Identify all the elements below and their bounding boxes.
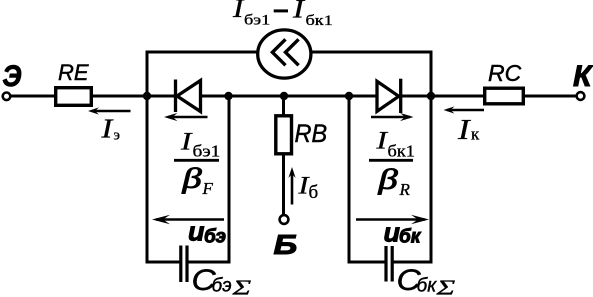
svg-text:бэ1: бэ1: [193, 142, 221, 161]
svg-text:u: u: [384, 218, 401, 248]
svg-text:бэ: бэ: [204, 227, 226, 248]
svg-text:б: б: [309, 182, 319, 203]
svg-text:β: β: [181, 163, 201, 194]
svg-text:Э: Э: [3, 58, 22, 92]
svg-text:F: F: [202, 179, 214, 198]
svg-text:бэ1: бэ1: [244, 11, 270, 28]
svg-text:бк: бк: [417, 276, 438, 297]
svg-text:бк1: бк1: [388, 141, 415, 160]
svg-text:RE: RE: [58, 60, 89, 85]
svg-text:u: u: [188, 217, 205, 247]
svg-text:Σ: Σ: [435, 276, 455, 297]
svg-text:к: к: [471, 125, 480, 144]
svg-text:RC: RC: [488, 60, 522, 86]
svg-text:э: э: [114, 128, 120, 144]
svg-text:I: I: [457, 113, 471, 146]
svg-text:Б: Б: [274, 229, 298, 261]
svg-text:К: К: [573, 60, 593, 93]
svg-text:I: I: [232, 0, 245, 23]
svg-text:I: I: [180, 128, 193, 155]
svg-text:Σ: Σ: [231, 276, 251, 297]
svg-text:R: R: [399, 180, 411, 199]
svg-text:бк: бк: [399, 227, 422, 248]
svg-text:I: I: [292, 0, 305, 24]
svg-text:бк1: бк1: [306, 12, 333, 29]
svg-text:β: β: [377, 164, 397, 195]
svg-text:бэ: бэ: [212, 276, 232, 297]
svg-text:RB: RB: [295, 120, 328, 148]
